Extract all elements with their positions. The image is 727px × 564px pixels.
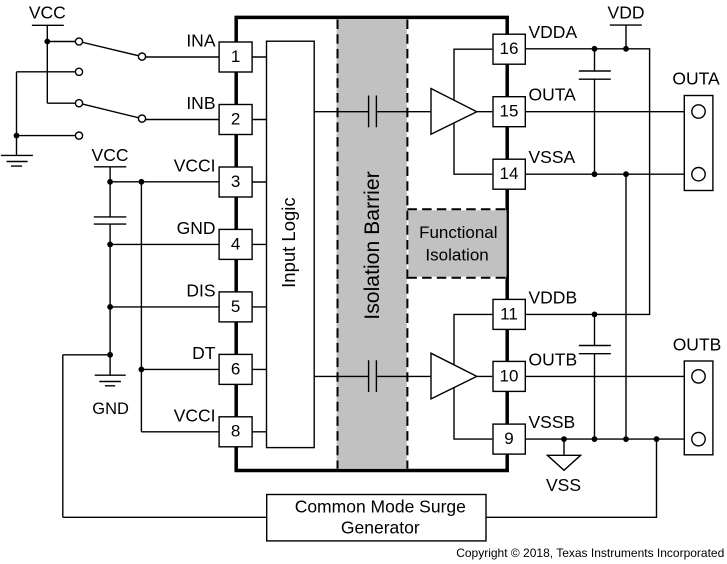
- svg-text:INA: INA: [186, 31, 216, 51]
- svg-text:11: 11: [500, 304, 518, 323]
- svg-text:Common Mode Surge: Common Mode Surge: [295, 496, 466, 516]
- svg-text:4: 4: [231, 234, 240, 253]
- svg-text:OUTB: OUTB: [673, 335, 722, 355]
- svg-text:Input Logic: Input Logic: [278, 197, 299, 288]
- svg-text:VDDB: VDDB: [529, 287, 578, 307]
- svg-text:OUTA: OUTA: [672, 69, 720, 89]
- svg-text:6: 6: [231, 359, 240, 378]
- svg-text:GND: GND: [92, 400, 129, 418]
- svg-text:INB: INB: [186, 93, 215, 113]
- svg-text:Copyright © 2018, Texas Instru: Copyright © 2018, Texas Instruments Inco…: [456, 546, 724, 560]
- svg-text:DIS: DIS: [186, 281, 215, 301]
- svg-text:9: 9: [504, 429, 513, 448]
- svg-text:Isolation: Isolation: [425, 245, 488, 264]
- svg-text:VDDA: VDDA: [529, 22, 578, 42]
- svg-text:3: 3: [231, 172, 240, 191]
- svg-text:15: 15: [500, 102, 519, 121]
- svg-text:VCC: VCC: [92, 145, 129, 165]
- svg-text:VSS: VSS: [546, 475, 581, 495]
- svg-text:DT: DT: [192, 343, 216, 363]
- svg-text:8: 8: [231, 422, 240, 441]
- svg-text:Generator: Generator: [341, 518, 420, 538]
- svg-text:OUTA: OUTA: [529, 85, 577, 105]
- svg-text:VSSA: VSSA: [529, 147, 576, 167]
- svg-text:Isolation Barrier: Isolation Barrier: [361, 171, 384, 319]
- svg-text:OUTB: OUTB: [529, 349, 578, 369]
- svg-text:GND: GND: [177, 218, 216, 238]
- svg-text:1: 1: [231, 47, 240, 66]
- svg-text:10: 10: [500, 366, 519, 385]
- svg-text:VDD: VDD: [608, 3, 645, 23]
- svg-text:VCCI: VCCI: [174, 406, 216, 426]
- svg-text:2: 2: [231, 109, 240, 128]
- svg-text:VCCI: VCCI: [174, 156, 216, 176]
- svg-text:VSSB: VSSB: [529, 412, 576, 432]
- svg-text:VCC: VCC: [29, 3, 66, 23]
- svg-text:16: 16: [500, 39, 519, 58]
- svg-text:Functional: Functional: [419, 223, 497, 242]
- svg-text:5: 5: [231, 297, 240, 316]
- svg-text:14: 14: [500, 164, 519, 183]
